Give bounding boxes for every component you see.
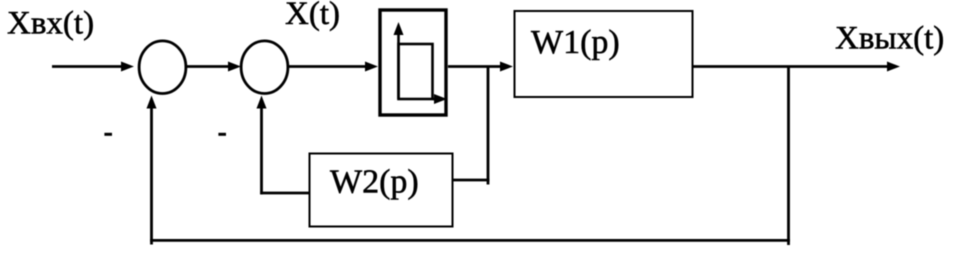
svg-text:Xвх(t): Xвх(t) (7, 6, 94, 42)
svg-text:W2(p): W2(p) (330, 164, 419, 201)
svg-text:W1(p): W1(p) (531, 24, 620, 61)
svg-text:X(t): X(t) (285, 0, 340, 32)
svg-text:Xвых(t): Xвых(t) (835, 21, 944, 57)
